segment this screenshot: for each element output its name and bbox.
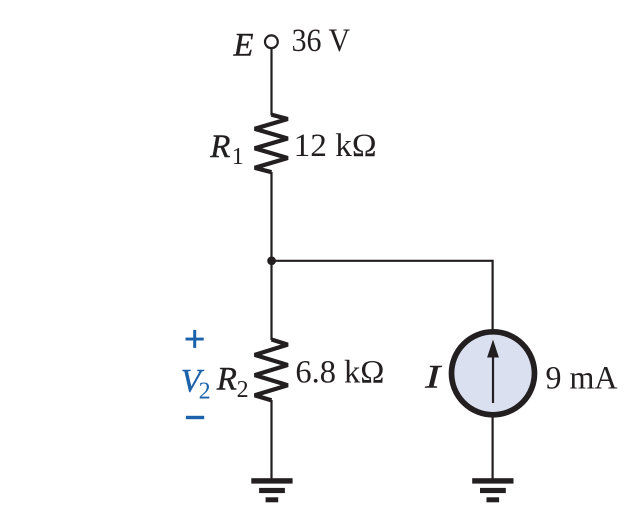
wire R2 to ground bbox=[270, 400, 272, 479]
svg-text:12 kΩ: 12 kΩ bbox=[294, 128, 377, 164]
current source I bbox=[452, 332, 535, 415]
wire down to current source bbox=[492, 260, 494, 331]
wire E to R1 bbox=[270, 48, 272, 115]
wire R1 to R2 through node A bbox=[270, 172, 272, 340]
plus sign (blue) bbox=[186, 330, 204, 348]
ground under current source bbox=[472, 478, 513, 502]
node A junction dot bbox=[267, 256, 276, 265]
ground under R2 bbox=[251, 478, 292, 502]
svg-text:R: R bbox=[216, 362, 237, 398]
resistor R1 bbox=[255, 115, 288, 173]
svg-text:36 V: 36 V bbox=[292, 23, 351, 59]
svg-text:2: 2 bbox=[199, 378, 211, 404]
resistor R2 bbox=[255, 340, 288, 401]
node E terminal circle bbox=[265, 35, 278, 48]
svg-text:2: 2 bbox=[237, 377, 249, 403]
svg-text:E: E bbox=[233, 27, 254, 63]
minus sign (blue) bbox=[186, 416, 204, 419]
svg-text:I: I bbox=[424, 359, 443, 395]
wire current source to ground bbox=[492, 416, 494, 480]
wire node A to current source (horizontal) bbox=[272, 260, 493, 262]
current source arrow bbox=[492, 352, 494, 403]
svg-text:R: R bbox=[209, 129, 230, 165]
svg-text:9 mA: 9 mA bbox=[546, 361, 618, 397]
svg-text:6.8 kΩ: 6.8 kΩ bbox=[295, 355, 384, 391]
svg-text:1: 1 bbox=[232, 144, 244, 170]
